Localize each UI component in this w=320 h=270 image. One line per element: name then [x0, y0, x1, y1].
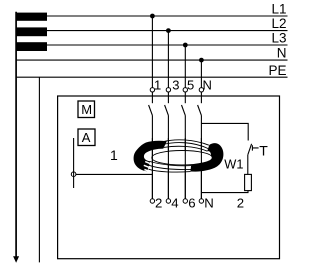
test branch wire from N — [201, 123, 248, 140]
svg-text:N: N — [204, 196, 214, 211]
wire PE — [16, 76, 288, 78]
junction dot L1 — [150, 14, 155, 19]
svg-text:L2: L2 — [271, 16, 286, 31]
test button actuator — [252, 145, 258, 150]
toroidal core winding thin arcs bottom — [149, 162, 192, 173]
svg-text:PE: PE — [268, 63, 286, 78]
svg-text:6: 6 — [188, 196, 195, 211]
toroid black winding segment left — [134, 141, 167, 172]
terminal circle N top — [199, 88, 203, 92]
svg-text:1: 1 — [154, 78, 161, 93]
svg-text:N: N — [203, 78, 212, 93]
svg-text:N: N — [277, 46, 287, 61]
svg-text:2: 2 — [237, 196, 244, 211]
fuse bar L1 — [16, 13, 47, 21]
toroidal core W1 winding thin arcs top — [163, 140, 209, 151]
svg-text:T: T — [259, 143, 268, 159]
svg-text:1: 1 — [110, 147, 118, 163]
switch contact pole 2 — [165, 105, 169, 115]
junction dot L3 — [183, 43, 188, 48]
terminal circle 2 — [150, 199, 154, 203]
conductor 4 lower — [200, 115, 202, 198]
toroid black winding segment right — [190, 143, 223, 171]
conductor 1 lower — [151, 115, 153, 198]
wire N — [16, 59, 288, 61]
test resistor 2 — [245, 174, 252, 190]
conductor 1 through core — [151, 138, 153, 199]
winding wire gaps on left segment — [144, 162, 154, 173]
switch contact pole 4 — [198, 105, 202, 115]
svg-text:4: 4 — [171, 196, 178, 211]
toroid hole — [152, 151, 212, 165]
fuse bar L2 — [16, 27, 47, 36]
junction dot N — [199, 58, 204, 63]
terminal circle 5 — [183, 88, 187, 92]
PE branch wire down — [38, 77, 40, 262]
svg-text:M: M — [81, 102, 92, 117]
terminal circle 3 — [166, 88, 170, 92]
conductor 1 drop from L1 — [151, 16, 153, 103]
switch contact pole 3 — [182, 105, 186, 115]
switch contact pole 1 — [149, 105, 153, 115]
svg-text:L3: L3 — [271, 31, 286, 46]
wire L1 — [16, 15, 288, 17]
svg-text:L1: L1 — [271, 2, 286, 17]
conductor 4 through core — [200, 138, 202, 199]
conductor 3 through core — [184, 138, 186, 199]
supply busbar with down arrow — [13, 12, 19, 263]
terminal circle N bottom — [199, 199, 203, 203]
conductor 2 lower — [167, 115, 169, 198]
mechanism box M — [78, 101, 95, 118]
wire L3 — [16, 44, 288, 46]
svg-text:W1: W1 — [224, 156, 243, 171]
terminal circle 1 — [150, 88, 154, 92]
resistor return wire — [201, 191, 248, 193]
wire L2 — [16, 30, 288, 32]
linkage vertical wire — [73, 138, 75, 188]
test button contact — [248, 144, 252, 155]
svg-text:2: 2 — [155, 196, 162, 211]
wire button to resistor — [247, 155, 249, 175]
trip relay box A — [78, 129, 95, 146]
conductor 3 drop from L3 — [184, 45, 186, 103]
conductor 2 drop from L2 — [167, 31, 169, 104]
linkage horizontal wire — [76, 173, 152, 175]
svg-text:3: 3 — [172, 78, 179, 93]
junction dot L2 — [166, 28, 171, 33]
RCD enclosure box — [58, 96, 280, 259]
svg-text:A: A — [82, 130, 91, 145]
terminal circle 6 — [183, 199, 187, 203]
conductor 4 drop from N — [200, 60, 202, 103]
terminal circle 4 — [166, 199, 170, 203]
conductor 2 through core — [167, 138, 169, 199]
pivot circle — [71, 172, 76, 177]
conductor 3 lower — [184, 115, 186, 198]
svg-text:5: 5 — [187, 78, 194, 93]
fuse bar L3 — [16, 42, 47, 51]
